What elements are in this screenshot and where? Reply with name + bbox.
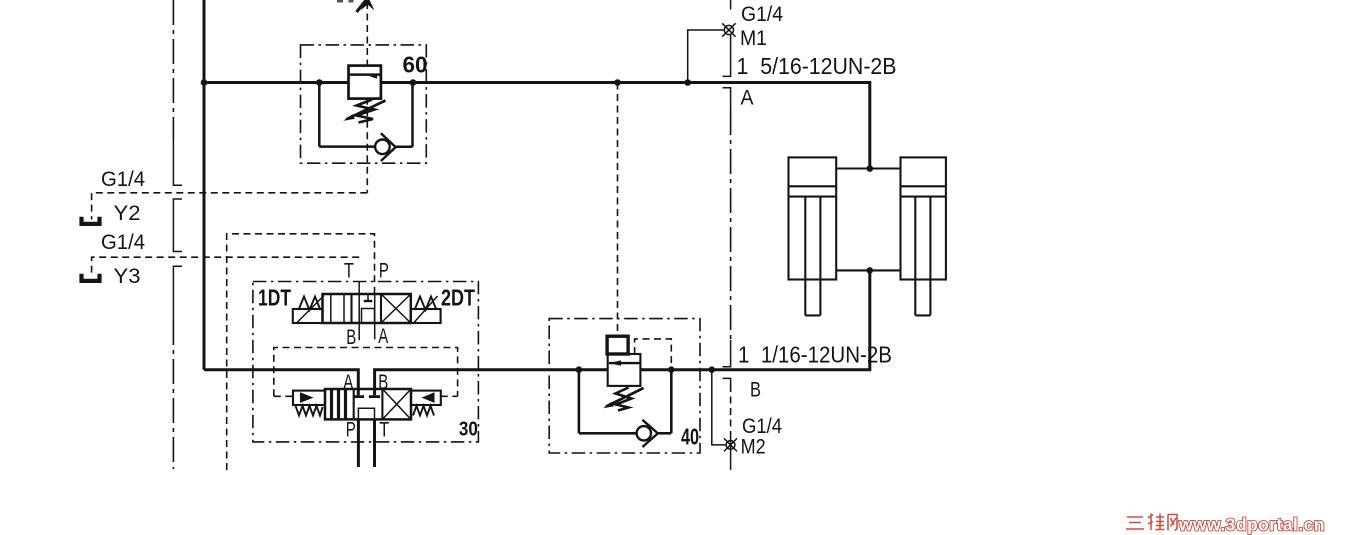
pilot actuator left (lower valve) (293, 391, 325, 416)
valve block 30 outer dashed pilot path (227, 234, 375, 470)
valve 40 pilot dashed box (635, 339, 672, 369)
wire: line B right segment from valve 30 port B to cylinders (375, 370, 608, 396)
svg-text:G1/4: G1/4 (101, 168, 145, 191)
directional valve (lower, block 30) body (325, 389, 411, 419)
Y3 pilot dashed wire (92, 257, 360, 276)
cylinder link bottom wire (836, 269, 900, 271)
junction node (869.8,168.5) (867, 165, 874, 172)
junction node (204,82.5) (201, 79, 208, 86)
valve 40 bypass bottom wire (579, 432, 637, 435)
cylinder right (901, 157, 946, 315)
junction node (319.3,82.5) (316, 79, 323, 86)
manifold boundary line right (upper) (723, 0, 731, 470)
svg-text:G1/4: G1/4 (101, 231, 145, 254)
junction node (869.8,270.4) (867, 267, 874, 274)
solenoid (1DT) with spring (293, 296, 324, 324)
dashed stub to left actuator (274, 395, 293, 397)
top valve right position crossed flow (X) (381, 294, 411, 323)
svg-text:B: B (378, 371, 388, 394)
dashed stub to right actuator (441, 395, 458, 397)
svg-text:P: P (379, 259, 389, 282)
svg-text:B: B (346, 326, 356, 349)
svg-text:1 1/16-12UN-2B: 1 1/16-12UN-2B (738, 341, 892, 367)
svg-text:A: A (343, 371, 353, 394)
svg-text:B: B (750, 378, 761, 401)
valve 40 main body (608, 354, 641, 386)
pump flow arrow (cut off at top) (337, 0, 375, 12)
valve block 30 enclosure (dash-dot box) (253, 282, 479, 442)
port M2 symbol (724, 438, 737, 451)
Y3 solenoid connector symbol (82, 274, 100, 281)
Y2 solenoid connector symbol (82, 217, 100, 224)
junction node (671.3,369.7) (668, 366, 675, 373)
inner dashed box (lower valve, block 30) (274, 348, 458, 397)
junction node (711.8,369.7) (709, 366, 716, 373)
cylinder link top wire (836, 167, 900, 169)
manifold boundary dash-dot line (left) (172, 0, 174, 469)
svg-text:P: P (346, 418, 356, 441)
directional valve (top, block 30) body (323, 294, 411, 323)
svg-text:M2: M2 (741, 436, 766, 459)
port T line (below lower valve) (373, 419, 376, 467)
relief valve 60 spring (343, 100, 385, 123)
top valve left position flow lines (331, 294, 344, 323)
wire: line B left segment into valve 30 port A (204, 370, 358, 396)
port M2 wire (712, 370, 726, 445)
port P line (below lower valve) (357, 419, 360, 467)
relief valve 60 bypass bottom wire (319, 145, 375, 148)
svg-text:40: 40 (681, 423, 699, 449)
valve 40 pilot cap (607, 336, 628, 354)
valve 40 bypass right riser (670, 370, 673, 434)
svg-text:60: 60 (403, 52, 428, 78)
port M1 symbol (722, 23, 735, 36)
callout bracket Y2 group (173, 199, 182, 252)
relief valve 60 bypass left drop (318, 83, 321, 147)
wire: main line A (top horizontal) to cylinders (204, 81, 349, 84)
port P line (top valve) (374, 294, 376, 340)
top valve centre position symbols (362, 294, 375, 323)
valve 60 pilot dashed line (up to arrow) (366, 2, 368, 66)
port A stub bar (valve 30) (353, 395, 364, 398)
svg-text:2DT: 2DT (441, 285, 475, 311)
junction node (617.5,82.5) (614, 79, 621, 86)
pilot actuator right (lower valve) (411, 391, 441, 416)
svg-text:A: A (378, 325, 388, 348)
valve 40 bypass left drop (578, 370, 581, 434)
lower valve right position crossed flow (X) (382, 389, 411, 419)
svg-text:T: T (344, 259, 354, 282)
svg-text:M1: M1 (740, 27, 767, 50)
check valve (valve 40) (637, 420, 672, 447)
svg-text:1DT: 1DT (258, 285, 291, 311)
valve 40 enclosure (dash-dot box) (549, 319, 700, 453)
svg-text:A: A (741, 86, 754, 109)
svg-text:30: 30 (459, 419, 478, 441)
svg-text:Y3: Y3 (114, 265, 141, 288)
callout bracket G1/4 (upper left) (173, 141, 182, 185)
port T line (top valve) (358, 282, 360, 341)
svg-text:T: T (379, 418, 389, 441)
lower valve centre blocked path (358, 408, 374, 419)
port B stub bar (valve 30) (369, 395, 380, 398)
valve 60 pilot dashed line (down to Y2 line) (366, 98, 368, 193)
relief valve 60 body (349, 66, 381, 99)
junction node (687.7,82.5) (684, 79, 691, 86)
port M1 wire (688, 30, 725, 83)
valve 40 spring (603, 388, 644, 411)
callout bracket Y3 group (173, 266, 182, 320)
watermark 三维网 (drawn strokes) (1126, 514, 1177, 531)
check valve (valve 60) (375, 133, 412, 161)
lower valve left position bars (332, 389, 346, 419)
wire: supply vertical line P (203, 0, 206, 370)
svg-text:1 5/16-12UN-2B: 1 5/16-12UN-2B (737, 53, 897, 79)
valve 40 pilot (LS) dashed line from line A (617, 83, 619, 337)
svg-text:G1/4: G1/4 (741, 3, 783, 26)
relief valve 60 enclosure (dash-dot box) (301, 45, 427, 163)
Y2 pilot dashed wire (92, 193, 368, 220)
junction node (413,82.5) (410, 79, 417, 86)
svg-text:Y2: Y2 (114, 202, 141, 225)
relief valve 60 bypass right riser (411, 83, 414, 147)
solenoid (2DT) with spring (411, 296, 441, 323)
junction node (578.9,369.7) (576, 366, 583, 373)
svg-text:www.3dportal.cn: www.3dportal.cn (1178, 515, 1325, 535)
cylinder left (789, 157, 837, 315)
